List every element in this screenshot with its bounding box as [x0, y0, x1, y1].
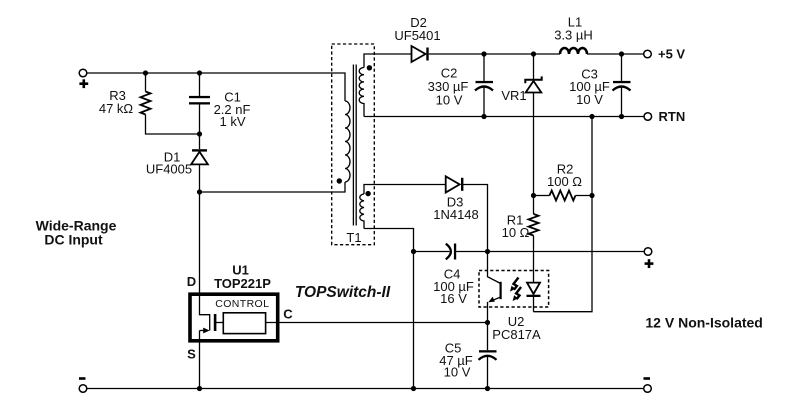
node D1 bottom / primary return: [197, 189, 202, 194]
wire drain D: [199, 192, 201, 293]
svg-text:C: C: [283, 307, 293, 322]
label 12V plus sign: [645, 262, 654, 265]
transformer T1 core: [352, 65, 354, 226]
svg-text:TOPSwitch-II: TOPSwitch-II: [295, 284, 391, 301]
node S bottom: [197, 386, 202, 391]
node C2 top: [481, 51, 486, 56]
label 12V minus sign: [644, 377, 651, 380]
node opto emitter / C pin wire: [485, 320, 490, 325]
wire bottom rail: [87, 388, 644, 390]
transformer T1 primary phasing dot: [337, 178, 342, 183]
wire D3 cathode down to 12V rail: [462, 185, 488, 252]
node R2 left / VR1 bottom: [531, 193, 536, 198]
node C3 bottom: [619, 114, 624, 119]
svg-text:1N4148: 1N4148: [433, 207, 479, 222]
optocoupler U2 dashed box: [479, 271, 549, 308]
svg-text:3.3 µH: 3.3 µH: [554, 28, 593, 43]
node R2 right: [589, 193, 594, 198]
label DC- minus sign: [79, 377, 86, 380]
diode D2: [412, 46, 426, 62]
terminal 12V-: [644, 385, 652, 393]
svg-text:100 Ω: 100 Ω: [547, 174, 582, 189]
capacitor C1: [199, 73, 201, 96]
node C2 bottom: [481, 114, 486, 119]
node C1 top: [197, 70, 202, 75]
svg-text:10 V: 10 V: [444, 365, 471, 380]
optocoupler U2 LED: [533, 252, 535, 283]
svg-text:+5 V: +5 V: [658, 47, 685, 62]
wire secondary 2 bottom return: [364, 229, 414, 389]
transformer T1 secondary 1 winding: [359, 68, 364, 117]
svg-text:TOP221P: TOP221P: [214, 276, 271, 291]
node RTN to R2 branch: [589, 114, 594, 119]
svg-text:PC817A: PC817A: [492, 327, 541, 342]
node C3 top: [619, 51, 624, 56]
input terminal DC-: [79, 385, 87, 393]
node 12V rail / opto collector: [485, 249, 490, 254]
transformer T1 secondary 1 phasing dot: [367, 65, 372, 70]
transformer T1 secondary 2 phasing dot: [365, 191, 370, 196]
node secondary return bottom: [411, 386, 416, 391]
svg-text:1 kV: 1 kV: [219, 114, 245, 129]
U1 internal CONTROL block: [223, 313, 265, 334]
wire top input rail: [87, 73, 345, 101]
wire RTN rail: [364, 116, 644, 118]
terminal +5V: [644, 50, 652, 58]
svg-text:CONTROL: CONTROL: [215, 298, 269, 310]
transformer T1 primary winding: [345, 101, 350, 182]
wire secondary 2 top to D3: [364, 185, 446, 195]
node VR1 top: [531, 51, 536, 56]
input terminal DC+: [79, 69, 87, 77]
svg-text:47 kΩ: 47 kΩ: [99, 101, 134, 116]
node secondary return / C4 left: [411, 249, 416, 254]
transformer T1 secondary 2 winding: [360, 194, 364, 229]
inductor L1: [560, 48, 587, 54]
node C5 bottom: [485, 386, 490, 391]
svg-text:RTN: RTN: [659, 109, 686, 124]
transformer T1 dashed box: [332, 44, 375, 245]
wire source S to bottom rail: [199, 331, 201, 389]
diode D1: [199, 134, 201, 149]
svg-text:UF4005: UF4005: [146, 162, 192, 177]
label DC+ plus sign: [79, 82, 88, 85]
svg-text:S: S: [187, 347, 196, 362]
wire +5V rail right: [587, 53, 644, 55]
resistor R2: [534, 195, 550, 197]
wire C pin to opto: [266, 322, 488, 324]
node R3 top: [143, 70, 148, 75]
svg-text:10 V: 10 V: [436, 93, 463, 108]
capacitor C2: [483, 54, 485, 81]
svg-text:D: D: [187, 274, 196, 289]
svg-text:VR1: VR1: [501, 88, 526, 103]
node C1/D1 junction: [197, 131, 202, 136]
svg-text:DC Input: DC Input: [44, 232, 103, 248]
wire secondary 1 top to D2: [364, 54, 412, 68]
resistor R3: [145, 73, 147, 92]
svg-text:UF5401: UF5401: [394, 28, 440, 43]
diode D3: [446, 176, 460, 192]
zener VR1: [533, 54, 535, 80]
terminal 12V+: [644, 248, 652, 256]
svg-text:12 V Non-Isolated: 12 V Non-Isolated: [645, 315, 762, 331]
op U1 TOPSwitch box: [190, 294, 278, 341]
optocoupler U2 light arrows: [510, 278, 519, 292]
wire +5V rail: [429, 53, 560, 55]
svg-text:T1: T1: [346, 230, 361, 245]
wire primary return: [200, 182, 346, 192]
terminal RTN: [644, 113, 652, 121]
optocoupler U2 phototransistor: [488, 252, 501, 284]
capacitor C3: [621, 54, 623, 81]
capacitor C5: [487, 323, 489, 351]
resistor R1: [533, 196, 535, 215]
capacitor C4: [414, 251, 450, 253]
svg-text:16 V: 16 V: [440, 291, 467, 306]
wire R2 right to RTN and down to LED return: [534, 117, 593, 312]
svg-text:10 Ω: 10 Ω: [502, 225, 530, 240]
wire R3 bottom to C1 bottom: [146, 115, 200, 135]
U1 internal MOSFET: [200, 293, 210, 331]
svg-text:10 V: 10 V: [576, 92, 603, 107]
